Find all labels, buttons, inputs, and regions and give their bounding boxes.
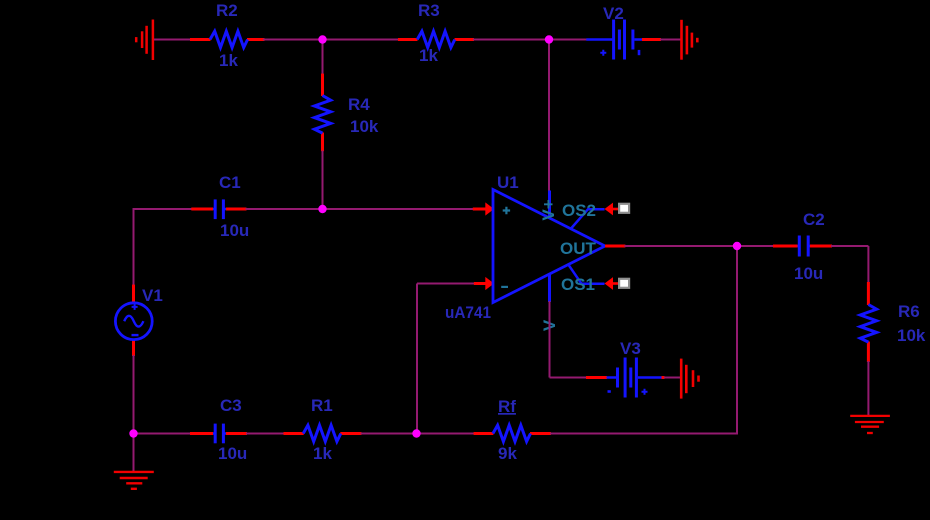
pin + input of U1 <box>473 202 494 215</box>
svg-text:OUT: OUT <box>560 239 597 258</box>
terminal (OS2 off-page connector) <box>619 204 629 213</box>
pin V- of U1 <box>540 274 559 332</box>
wire <box>134 433 192 435</box>
node junction (V1/C3/ground) <box>129 429 137 437</box>
svg-text:R3: R3 <box>418 1 440 20</box>
wire <box>263 39 323 41</box>
node junction (R3/V2/V+ supply) <box>545 35 553 43</box>
svg-text:uA741: uA741 <box>445 303 491 322</box>
resistor R1 <box>284 425 362 441</box>
pin V+ of U1 <box>539 191 558 221</box>
svg-text:C1: C1 <box>219 173 241 192</box>
wire <box>246 208 323 210</box>
svg-text:10u: 10u <box>218 444 247 463</box>
wire <box>417 283 475 285</box>
resistor R2 <box>190 31 265 47</box>
wire <box>548 40 550 192</box>
capacitor C1 <box>191 199 246 219</box>
source V1 (AC) <box>115 285 152 356</box>
wire <box>664 377 680 379</box>
wire <box>133 434 135 472</box>
wire <box>737 245 774 247</box>
svg-text:OS1: OS1 <box>561 275 595 294</box>
wire <box>323 39 400 41</box>
wire <box>361 433 417 435</box>
wire <box>416 284 418 434</box>
resistor R6 <box>860 282 876 362</box>
node junction (C1/R4/+input) <box>318 205 326 213</box>
wire <box>154 39 191 41</box>
svg-text:10u: 10u <box>220 221 249 240</box>
op-amp U1 <box>493 190 605 303</box>
ground (below V1) <box>114 472 154 489</box>
battery V2 <box>586 20 661 60</box>
wire <box>831 245 868 247</box>
svg-text:V+: V+ <box>539 199 558 220</box>
svg-text:1k: 1k <box>419 46 438 65</box>
wire <box>660 39 681 41</box>
wire <box>322 151 324 210</box>
svg-text:V2: V2 <box>603 4 624 23</box>
pin OUT of U1 <box>605 245 625 248</box>
svg-text:V3: V3 <box>620 339 641 358</box>
svg-text:C2: C2 <box>803 210 825 229</box>
wire <box>550 433 738 435</box>
wire <box>417 433 475 435</box>
resistor R3 <box>398 31 474 47</box>
wire <box>549 301 551 378</box>
svg-text:V1: V1 <box>142 286 163 305</box>
wire <box>736 246 738 434</box>
pin OS2 of U1 <box>571 203 619 229</box>
wire <box>133 208 135 286</box>
capacitor C3 <box>190 424 247 444</box>
ground (right of V3) <box>681 359 698 399</box>
pin OS1 of U1 <box>569 265 619 290</box>
wire <box>246 433 285 435</box>
svg-text:U1: U1 <box>497 173 519 192</box>
ground (top-right, rotated right) <box>682 20 698 60</box>
wire <box>867 246 869 283</box>
svg-text:10k: 10k <box>350 117 379 136</box>
ground (below R6) <box>850 416 890 433</box>
wire <box>323 208 474 210</box>
node junction (R1/Rf/-input) <box>412 429 420 437</box>
node junction (R2/R3/R4) <box>318 35 326 43</box>
svg-text:1k: 1k <box>313 444 332 463</box>
svg-text:Rf: Rf <box>498 397 516 416</box>
svg-text:R1: R1 <box>311 396 333 415</box>
capacitor C2 <box>773 236 832 257</box>
svg-text:OS2: OS2 <box>562 201 596 220</box>
wire <box>133 355 135 434</box>
node junction (OUT/C2/feedback) <box>733 242 741 250</box>
wire <box>867 361 869 416</box>
svg-text:9k: 9k <box>498 444 517 463</box>
pin - input of U1 <box>474 277 494 290</box>
svg-text:R2: R2 <box>216 1 238 20</box>
wire <box>473 39 587 41</box>
resistor R4 <box>314 74 330 152</box>
svg-text:R4: R4 <box>348 95 370 114</box>
svg-text:C3: C3 <box>220 396 242 415</box>
svg-text:1k: 1k <box>219 51 238 70</box>
wire <box>624 245 737 247</box>
wire <box>550 377 588 379</box>
resistor Rf <box>474 425 551 441</box>
ground (top-left, rotated left) <box>136 20 153 61</box>
wire <box>134 208 193 210</box>
wire <box>586 376 607 379</box>
wire <box>322 40 324 75</box>
svg-text:10u: 10u <box>794 264 823 283</box>
svg-text:R6: R6 <box>898 302 920 321</box>
svg-text:10k: 10k <box>897 326 926 345</box>
battery V3 <box>607 358 665 398</box>
terminal (OS1 off-page connector) <box>619 279 629 288</box>
